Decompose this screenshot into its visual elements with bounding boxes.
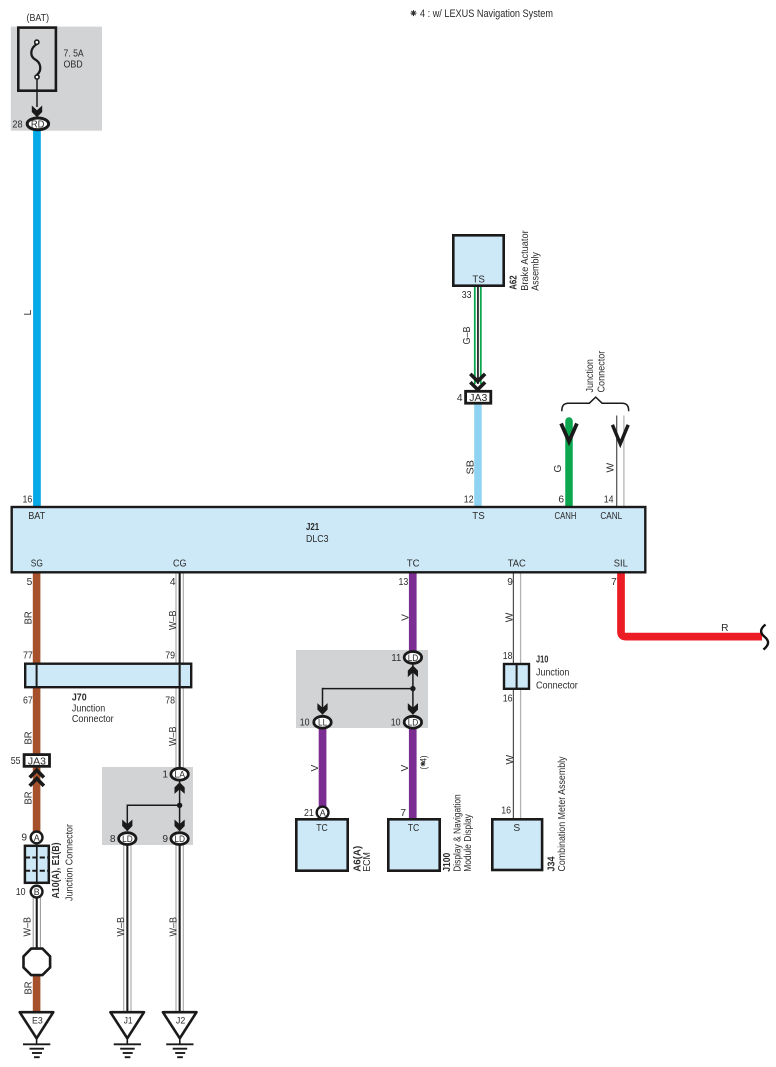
svg-text:21: 21 <box>304 808 314 819</box>
svg-text:BAT: BAT <box>28 511 45 522</box>
component J34 combination meter box <box>492 819 542 870</box>
svg-text:G: G <box>553 465 564 473</box>
svg-text:SIL: SIL <box>614 559 628 570</box>
svg-text:TAC: TAC <box>508 559 526 570</box>
J70 wire slot mark (BR) <box>36 665 38 686</box>
fuse terminal top <box>35 40 39 44</box>
connector J21 DLC3 main box <box>12 507 646 572</box>
svg-text:J1: J1 <box>124 1016 133 1027</box>
svg-text:V: V <box>310 765 321 772</box>
double chevron down into JA3 (pin 4) <box>470 374 485 390</box>
svg-text:Connector: Connector <box>72 714 114 725</box>
svg-text:33: 33 <box>462 290 472 301</box>
off-page squiggle on red wire <box>761 625 768 650</box>
svg-text:W: W <box>505 612 516 622</box>
terminal circle A pin 21 (ECM) <box>317 807 329 819</box>
svg-text:JA3: JA3 <box>28 756 46 767</box>
shield box around LD/LL junction (TC branch) <box>296 650 428 728</box>
svg-text:LA: LA <box>174 769 185 780</box>
arrow down into LD9 <box>175 820 185 832</box>
double chevron up into JA3 (pin 55) <box>30 770 44 786</box>
svg-text:7: 7 <box>611 577 617 588</box>
svg-text:LD: LD <box>408 652 419 663</box>
TC-branch link line LD11 to junction to LL/LD10 <box>323 664 414 715</box>
terminal circle B pin 10 <box>31 886 43 898</box>
wire W-B J21 CG down to LA oval <box>176 573 183 769</box>
brace over junction connector wires <box>562 397 629 411</box>
svg-text:R: R <box>721 623 728 634</box>
wire V (violet) J21 TC down to LD11 oval <box>409 573 417 653</box>
svg-text:CANH: CANH <box>555 511 577 522</box>
wire W-B LD9 oval down to ground J2 <box>176 844 183 1013</box>
svg-text:J100: J100 <box>442 853 453 872</box>
svg-text:SB: SB <box>465 460 476 475</box>
svg-text:9: 9 <box>507 577 513 588</box>
svg-text:16: 16 <box>23 494 33 505</box>
wire G-B (green/black) A62 pin 33 to JA3 <box>474 287 482 384</box>
svg-text:RD: RD <box>31 120 45 131</box>
svg-text:13: 13 <box>399 577 409 588</box>
svg-text:TC: TC <box>408 823 420 834</box>
svg-text:8: 8 <box>110 834 116 845</box>
svg-text:W–B: W–B <box>168 917 179 937</box>
svg-text:A: A <box>34 833 40 843</box>
wire BR (brown) octagon to ground E3 <box>33 974 41 1014</box>
svg-text:ECM: ECM <box>362 852 373 872</box>
svg-text:L: L <box>23 310 34 316</box>
svg-text:TC: TC <box>316 823 328 834</box>
svg-text:Connector: Connector <box>597 350 608 392</box>
svg-text:TC: TC <box>407 559 420 570</box>
svg-text:BR: BR <box>24 611 35 624</box>
svg-text:12: 12 <box>464 494 474 505</box>
arrow up into LA <box>175 782 185 794</box>
chevron V on CANL wire <box>612 425 628 444</box>
fuse element curve <box>31 44 40 75</box>
component A6(A) ECM box <box>296 819 347 870</box>
svg-text:16: 16 <box>503 694 513 705</box>
svg-text:7. 5A: 7. 5A <box>64 49 84 60</box>
svg-text:LD: LD <box>122 833 133 844</box>
svg-text:JA3: JA3 <box>469 393 487 404</box>
relay block JA3 lower (pin 55) <box>24 755 49 768</box>
svg-text:B: B <box>34 887 40 897</box>
svg-text:4 : w/ LEXUS Navigation System: 4 : w/ LEXUS Navigation System <box>420 8 553 20</box>
relay block JA3 upper (pin 4) <box>466 391 491 404</box>
svg-text:J2: J2 <box>176 1016 185 1027</box>
wire SB (sky blue) JA3 to J21 TS <box>474 403 482 506</box>
arrow into RD oval <box>32 106 42 118</box>
svg-text:4: 4 <box>170 577 176 588</box>
svg-text:(BAT): (BAT) <box>27 13 50 24</box>
svg-text:W: W <box>606 463 617 473</box>
J10 divider <box>516 664 518 689</box>
svg-text:10: 10 <box>391 718 401 729</box>
svg-text:J21: J21 <box>306 522 319 533</box>
svg-text:S: S <box>513 823 520 834</box>
svg-text:W–B: W–B <box>168 726 179 746</box>
terminal oval LD pin 9 <box>171 833 188 845</box>
svg-text:14: 14 <box>604 494 614 505</box>
svg-text:18: 18 <box>503 651 513 662</box>
svg-text:DLC3: DLC3 <box>306 534 329 545</box>
svg-text:LD: LD <box>408 717 419 728</box>
fuse 7.5A OBD box <box>18 28 56 91</box>
terminal oval LD pin 11 <box>404 652 421 664</box>
svg-text:J34: J34 <box>546 856 557 871</box>
svg-text:J70: J70 <box>72 692 87 703</box>
svg-text:5: 5 <box>27 577 33 588</box>
ground J2 <box>163 1012 197 1057</box>
svg-text:10: 10 <box>300 718 310 729</box>
terminal oval LL pin 10 <box>314 716 331 728</box>
terminal oval LA pin 1 <box>171 768 188 780</box>
wire W-B LD8 oval down to ground J1 <box>124 844 131 1013</box>
component A62 brake actuator box <box>453 235 503 285</box>
svg-text:67: 67 <box>23 695 33 706</box>
svg-text:16: 16 <box>501 805 511 816</box>
arrow down into LL <box>317 703 327 715</box>
svg-text:( 4): ( 4) <box>419 756 429 770</box>
wire W-B circle B to octagon <box>33 897 40 950</box>
terminal oval RD pin 28 <box>27 118 48 131</box>
wire R (red) J21 SIL down then right off-page <box>621 573 762 637</box>
arrow down into LD8 <box>122 820 132 832</box>
svg-text:W–B: W–B <box>168 610 179 630</box>
svg-text:A62: A62 <box>508 275 519 290</box>
terminal oval LD pin 8 <box>119 833 136 845</box>
svg-text:A: A <box>320 808 326 818</box>
svg-text:E3: E3 <box>32 1016 43 1027</box>
svg-text:7: 7 <box>400 808 406 819</box>
svg-text:CANL: CANL <box>600 511 622 522</box>
svg-text:4: 4 <box>457 393 463 404</box>
svg-text:10: 10 <box>16 887 26 898</box>
wire BR (brown) J21 SG down to circle A <box>33 573 41 832</box>
svg-text:SG: SG <box>31 559 43 570</box>
svg-text:V: V <box>400 765 411 772</box>
svg-text:Combination Meter Assembly: Combination Meter Assembly <box>557 756 568 872</box>
svg-text:OBD: OBD <box>64 59 83 70</box>
svg-text:Junction: Junction <box>585 359 596 392</box>
terminal circle A pin 9 <box>31 832 43 844</box>
junction connector J70 bar <box>25 664 191 688</box>
svg-text:W–B: W–B <box>23 917 34 937</box>
component J100 display box <box>388 819 439 870</box>
svg-text:Junction: Junction <box>536 667 569 678</box>
fuse terminal bottom <box>35 75 39 79</box>
svg-text:W–B: W–B <box>116 917 127 937</box>
svg-text:BR: BR <box>24 792 35 805</box>
wire W junction connector to J21 CANL <box>617 416 624 507</box>
svg-text:9: 9 <box>21 833 27 844</box>
svg-text:11: 11 <box>391 653 401 664</box>
svg-text:BR: BR <box>24 982 35 995</box>
svg-text:Connector: Connector <box>536 680 578 691</box>
svg-text:9: 9 <box>162 834 168 845</box>
svg-text:W: W <box>505 755 516 765</box>
CG-branch link line LA to junction to LD8/LD9 <box>127 781 180 831</box>
svg-text:Brake Actuator: Brake Actuator <box>520 230 531 291</box>
svg-text:55: 55 <box>11 756 21 767</box>
junction dot (CG branch) <box>177 803 182 808</box>
svg-text:6: 6 <box>558 494 564 505</box>
svg-text:77: 77 <box>23 651 33 662</box>
wire W J21 TAC down to J34 pin 16 <box>513 573 520 820</box>
arrow up into LD11 <box>408 665 418 677</box>
arrow down into LD10 <box>408 703 418 715</box>
svg-text:CG: CG <box>173 559 187 570</box>
svg-text:79: 79 <box>165 651 175 662</box>
svg-text:1: 1 <box>162 770 168 781</box>
chevron V on CANH wire <box>561 424 577 442</box>
wire V (violet) LL oval down to circle A of ECM <box>319 728 327 808</box>
svg-text:BR: BR <box>24 732 35 745</box>
svg-text:Assembly: Assembly <box>531 251 542 290</box>
svg-text:G–B: G–B <box>462 326 473 344</box>
wire V (violet) LD10 oval down to J100 pin 7 <box>409 728 417 819</box>
svg-text:LL: LL <box>318 717 327 728</box>
svg-text:Display & Navigation: Display & Navigation <box>452 794 463 872</box>
wire G (green) junction connector to J21 CANH <box>565 421 573 506</box>
wire L (blue) fuse to J21 BAT <box>33 130 41 507</box>
svg-text:LD: LD <box>174 833 185 844</box>
svg-text:A10(A), E1(B): A10(A), E1(B) <box>51 843 62 899</box>
junction connector J10 box <box>504 664 529 689</box>
svg-text:78: 78 <box>165 695 175 706</box>
svg-text:J10: J10 <box>536 654 549 665</box>
svg-text:V: V <box>400 614 411 621</box>
ground J1 <box>110 1012 144 1057</box>
junction dot (TC branch) <box>410 686 415 691</box>
terminal oval LD pin 10 <box>404 716 421 728</box>
svg-text:Module Display: Module Display <box>463 813 474 871</box>
lead from fuse to pin 28 <box>36 79 38 107</box>
shield box around LA/LD junction (CG branch) <box>102 767 193 845</box>
ground E3 <box>20 1012 54 1057</box>
note star symbol <box>411 10 417 16</box>
fuse block shading <box>11 27 102 131</box>
svg-text:Junction Connector: Junction Connector <box>65 823 76 901</box>
junction connector block A10(A),E1(B) <box>25 846 49 883</box>
svg-text:28: 28 <box>12 120 22 131</box>
J70 wire slot mark (W-B) <box>179 665 181 686</box>
splice octagon <box>24 949 51 976</box>
svg-text:TS: TS <box>472 275 485 286</box>
svg-text:TS: TS <box>472 511 485 522</box>
